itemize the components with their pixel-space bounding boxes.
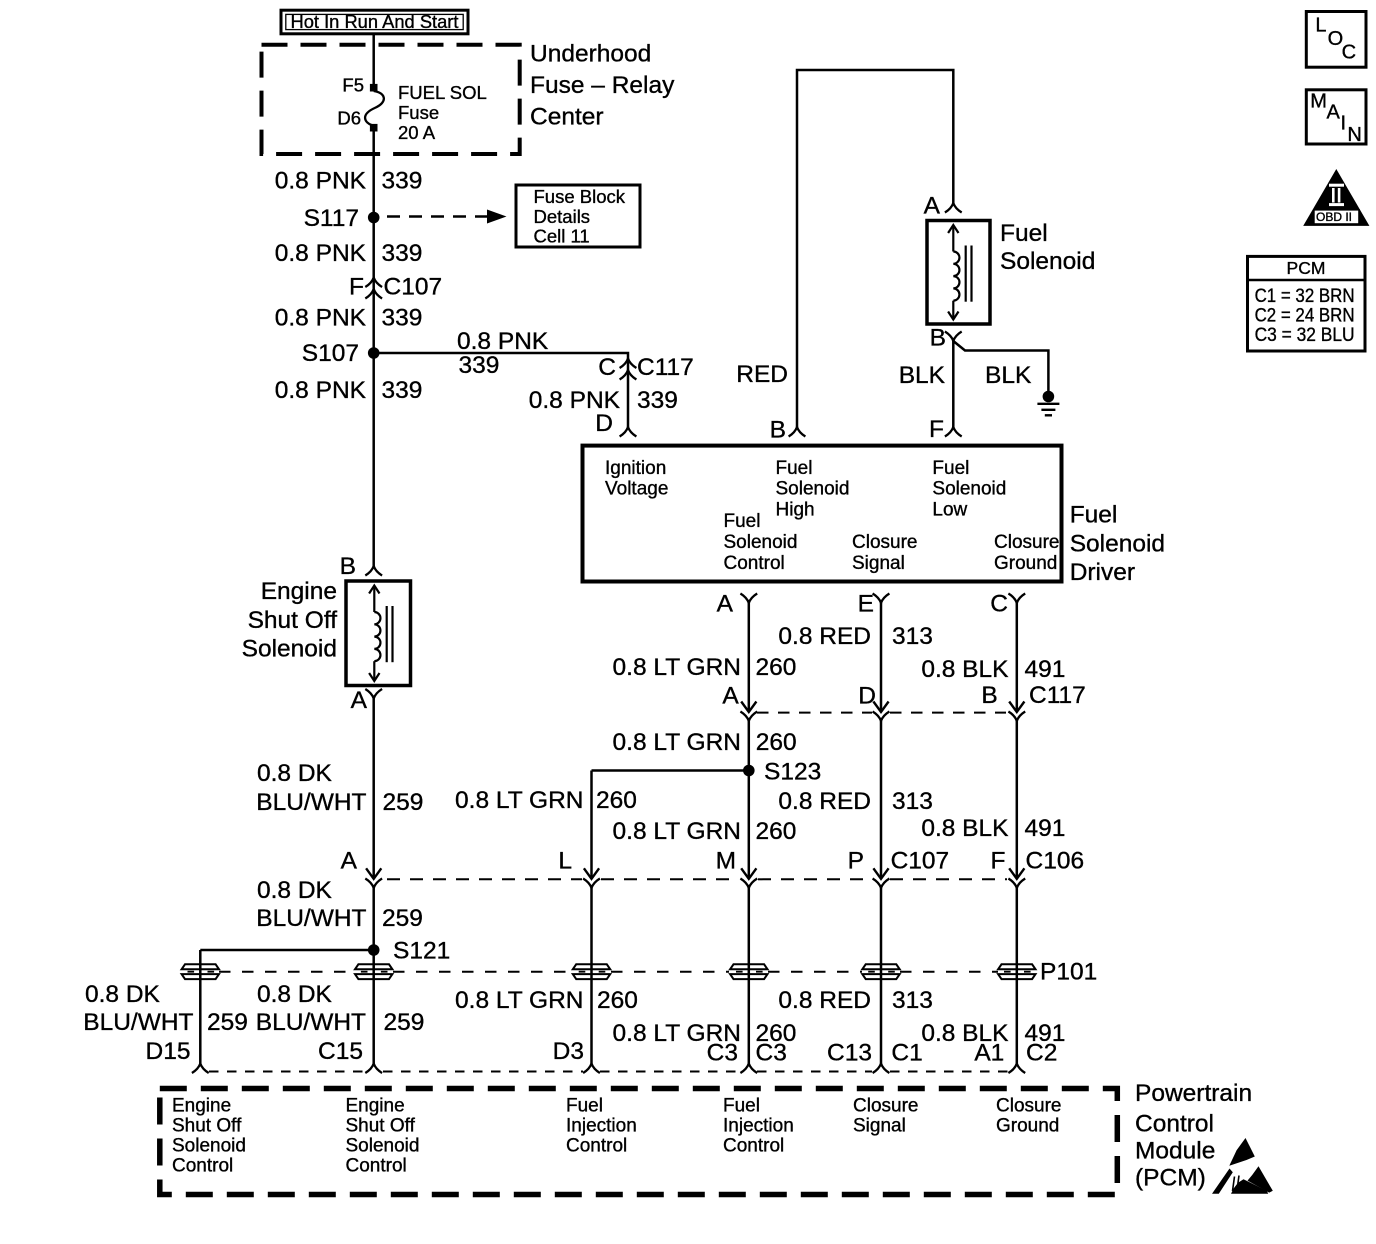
dashed arrow S117 to fuse block details [387,215,487,217]
svg-text:0.8 DK: 0.8 DK [257,760,333,787]
svg-text:Low: Low [932,500,967,521]
svg-text:High: High [776,500,815,521]
svg-text:Fuel: Fuel [723,1096,760,1117]
svg-text:Hot In Run And Start: Hot In Run And Start [291,12,459,32]
svg-text:0.8 RED: 0.8 RED [778,987,871,1014]
svg-text:Injection: Injection [566,1116,637,1137]
svg-text:Fuel: Fuel [724,511,761,532]
svg-text:0.8 PNK: 0.8 PNK [275,304,367,331]
svg-text:B: B [930,324,946,351]
box PCM connector legend [1248,256,1366,351]
PCM pin forks [192,1064,209,1074]
svg-text:Cell 11: Cell 11 [534,226,590,247]
svg-text:Voltage: Voltage [605,479,668,500]
splice S107 [368,347,380,359]
wire - fuse D6 to S117 to S107 to engine shut off solenoid B (0.8 PNK 339 / DK BLU) [372,131,375,566]
svg-text:Closure: Closure [852,532,917,553]
svg-text:D: D [595,410,613,437]
svg-text:A: A [341,847,358,874]
svg-text:259: 259 [207,1009,248,1036]
svg-text:0.8 PNK: 0.8 PNK [275,167,367,194]
svg-text:Engine: Engine [346,1096,405,1117]
svg-text:Closure: Closure [853,1096,918,1117]
svg-text:0.8 LT GRN: 0.8 LT GRN [455,787,583,814]
svg-text:339: 339 [382,304,423,331]
svg-text:Fuel: Fuel [1000,220,1048,247]
svg-text:C107: C107 [384,273,443,300]
svg-text:Injection: Injection [723,1116,794,1137]
svg-text:Control: Control [723,1136,784,1157]
svg-text:Engine: Engine [261,578,337,605]
wire - C107 pin M to PCM pin C3 (0.8 LT GRN 260) [748,888,751,1064]
wire - S121 branch to PCM pin D15 [200,949,373,952]
svg-text:0.8 LT GRN: 0.8 LT GRN [613,818,741,845]
engine solenoid pin B fork [365,566,382,576]
svg-text:OBD II: OBD II [1316,212,1352,224]
connector C117 inline symbol [620,359,637,369]
svg-text:259: 259 [382,905,423,932]
svg-text:P101: P101 [1040,958,1097,985]
dashed box Underhood Fuse-Relay Center [262,45,520,154]
svg-text:A: A [717,590,734,617]
svg-text:0.8 BLK: 0.8 BLK [921,656,1009,683]
svg-text:D3: D3 [553,1038,584,1065]
svg-text:Shut Off: Shut Off [346,1116,416,1137]
fuel solenoid pin A fork [945,203,962,213]
wire - C117 pin D to C107 pin P (0.8 RED 313) [880,721,883,879]
svg-text:S121: S121 [393,937,450,964]
svg-text:BLU/WHT: BLU/WHT [83,1009,193,1036]
svg-text:N: N [1347,124,1361,146]
C107/C106 row arrowheads and forks [366,868,381,879]
svg-text:Fuse – Relay: Fuse – Relay [530,72,675,99]
box Hot In Run And Start [281,10,468,34]
fuel solenoid component box with coil [927,221,990,325]
svg-text:Solenoid: Solenoid [1000,248,1095,275]
svg-text:Control: Control [724,553,785,574]
svg-text:Module: Module [1135,1138,1215,1165]
svg-text:Engine: Engine [172,1096,231,1117]
svg-text:E: E [858,590,874,617]
svg-text:Underhood: Underhood [530,40,651,67]
svg-text:D15: D15 [146,1038,191,1065]
box LOC [1306,12,1366,68]
svg-text:Solenoid: Solenoid [724,532,798,553]
svg-text:C: C [1342,41,1356,63]
svg-text:A: A [722,682,739,709]
wire - S123 branch to C107 pin L (0.8 LT GRN 260) [592,769,749,772]
svg-text:BLK: BLK [899,362,946,389]
svg-text:491: 491 [1025,815,1066,842]
svg-text:A1: A1 [974,1039,1004,1066]
P101 grommet pass-through (left) [182,964,219,969]
svg-text:I: I [1341,113,1347,135]
svg-text:PCM: PCM [1287,258,1326,278]
svg-text:C117: C117 [637,354,694,381]
svg-text:Driver: Driver [1070,559,1135,586]
driver pin F fork [945,427,962,437]
svg-text:0.8 LT GRN: 0.8 LT GRN [613,654,741,681]
svg-text:C2 = 24 BRN: C2 = 24 BRN [1255,305,1355,326]
svg-text:C13: C13 [827,1039,872,1066]
svg-text:L: L [558,847,572,874]
svg-text:Shut Off: Shut Off [248,607,338,634]
svg-text:260: 260 [756,654,797,681]
svg-text:C107: C107 [891,847,950,874]
svg-text:Solenoid: Solenoid [932,479,1006,500]
ESD symbol small [1229,1138,1255,1166]
svg-text:Control: Control [566,1136,627,1157]
svg-text:Fuel: Fuel [1070,501,1118,528]
dashed box Powertrain Control Module [160,1089,1118,1195]
engine shut off solenoid component box with coil [346,581,411,686]
svg-text:F: F [991,847,1006,874]
wire - driver pin B RED to fuel solenoid pin A [797,70,953,427]
box MAIN [1306,90,1366,144]
svg-text:C3: C3 [756,1039,787,1066]
svg-text:BLU/WHT: BLU/WHT [256,905,366,932]
engine solenoid pin A fork [365,689,382,699]
svg-text:339: 339 [637,387,678,414]
fuel solenoid pin B fork [945,332,962,342]
OBD II triangle symbol [1303,169,1369,226]
svg-text:Control: Control [1135,1110,1214,1137]
svg-text:Closure: Closure [994,532,1059,553]
wire - driver pin C to C117 pin B (0.8 BLK 491) [1016,603,1019,712]
svg-text:260: 260 [756,729,797,756]
svg-text:M: M [1310,90,1327,112]
P101 grommet pass-through (C3 wire) [730,964,767,969]
fuse FUEL SOL 20A [370,84,378,92]
wire - driver pin A to C117 row (0.8 LT GRN 260) [748,603,751,712]
svg-text:P: P [848,847,864,874]
svg-text:C3: C3 [707,1039,738,1066]
driver pin A fork [740,594,757,604]
svg-text:B: B [340,553,356,580]
wire - C106 pin F to PCM pin A1 (0.8 BLK 491) [1016,888,1019,1064]
wire - C107 to S121 to PCM pin C15 [372,888,375,1064]
svg-text:0.8 LT GRN: 0.8 LT GRN [455,987,583,1014]
svg-text:260: 260 [756,818,797,845]
wire - C107 pin P to PCM pin C13 (0.8 RED 313) [880,888,883,1064]
P101 grommet pass-through (C15 wire) [355,964,392,969]
svg-text:339: 339 [382,167,423,194]
svg-text:Shut Off: Shut Off [172,1116,242,1137]
svg-text:C1 = 32 BRN: C1 = 32 BRN [1255,286,1355,307]
svg-text:313: 313 [892,623,933,650]
svg-text:260: 260 [597,987,638,1014]
svg-text:0.8 LT GRN: 0.8 LT GRN [613,729,741,756]
fuel solenoid driver box [583,446,1062,582]
svg-text:D6: D6 [337,108,361,129]
svg-text:M: M [716,847,736,874]
svg-text:313: 313 [892,987,933,1014]
svg-text:C117: C117 [1029,682,1086,709]
svg-text:C: C [990,590,1008,617]
svg-text:FUEL SOL: FUEL SOL [398,82,487,103]
connector C107 inline symbol [365,278,382,288]
svg-text:Solenoid: Solenoid [172,1136,246,1157]
svg-text:259: 259 [383,789,424,816]
svg-text:Details: Details [534,206,591,227]
svg-text:Ground: Ground [994,553,1057,574]
svg-text:BLU/WHT: BLU/WHT [256,789,366,816]
svg-text:Control: Control [346,1156,407,1177]
driver pin E fork [873,594,890,604]
driver pin C fork [1008,594,1025,604]
driver pin D fork [620,427,637,437]
svg-text:B: B [981,682,997,709]
wire - fuel solenoid pin B BLK to ground [953,341,1048,391]
svg-text:(PCM): (PCM) [1135,1165,1206,1192]
svg-text:0.8 DK: 0.8 DK [85,981,161,1008]
svg-text:F5: F5 [342,75,364,96]
P101 grommet pass-through (C2 wire) [998,964,1035,969]
svg-text:RED: RED [736,361,788,388]
svg-text:Signal: Signal [853,1116,906,1137]
svg-text:Ignition: Ignition [605,458,666,479]
svg-text:Fuse Block: Fuse Block [534,186,626,207]
svg-text:A: A [1327,101,1341,123]
wire - S107 branch to C117 / driver pin D (0.8 PNK 339) [374,353,628,427]
svg-text:Signal: Signal [852,553,905,574]
splice S117 [368,212,380,224]
grommet P101 dashed line [219,971,355,973]
svg-text:313: 313 [892,788,933,815]
P101 grommet pass-through (D3 wire) [573,964,610,969]
ESD symbol large [1212,1169,1233,1194]
svg-text:C2: C2 [1026,1039,1057,1066]
svg-text:S123: S123 [764,758,821,785]
svg-text:339: 339 [382,377,423,404]
svg-text:B: B [770,416,786,443]
svg-text:Powertrain: Powertrain [1135,1080,1252,1107]
wire - C117 pin A to S123 to C107 pin M (0.8 LT GRN 260) [748,721,751,879]
svg-text:C: C [598,354,616,381]
svg-text:C3 = 32 BLU: C3 = 32 BLU [1255,325,1355,346]
svg-text:Ground: Ground [996,1116,1059,1137]
C117 row arrowheads and forks [741,702,756,713]
svg-text:Fuel: Fuel [932,458,969,479]
ground G103 symbol [1043,391,1055,403]
svg-text:F: F [349,273,364,300]
P101 grommet pass-through (C1 wire) [862,964,899,969]
connector C107/C106 dashed line [387,878,582,880]
svg-text:BLU/WHT: BLU/WHT [256,1009,366,1036]
box Fuse Block Details Cell 11 [516,185,640,247]
splice S123 [743,765,755,777]
svg-text:Solenoid: Solenoid [346,1136,420,1157]
svg-text:S107: S107 [302,340,359,367]
svg-text:Fuel: Fuel [566,1096,603,1117]
svg-text:Solenoid: Solenoid [242,636,337,663]
svg-text:C15: C15 [318,1038,363,1065]
wire - fuel solenoid pin B BLK to driver pin F [952,341,955,427]
svg-text:F: F [929,416,944,443]
svg-text:491: 491 [1025,656,1066,683]
wire - engine shut off solenoid A down to C107 row (0.8 DK BLU/WHT 259) [372,699,375,879]
wire - battery feed into fuse F5 [372,35,375,84]
svg-text:D: D [858,682,876,709]
svg-text:0.8 RED: 0.8 RED [778,788,871,815]
svg-text:Center: Center [530,103,604,130]
svg-text:Solenoid: Solenoid [776,479,850,500]
svg-text:339: 339 [382,240,423,267]
svg-text:0.8 BLK: 0.8 BLK [921,815,1009,842]
svg-text:Solenoid: Solenoid [1070,530,1165,557]
svg-text:BLK: BLK [985,362,1032,389]
svg-text:Fuse: Fuse [398,102,439,123]
svg-text:0.8 DK: 0.8 DK [257,877,333,904]
svg-text:0.8 RED: 0.8 RED [778,623,871,650]
svg-text:0.8 PNK: 0.8 PNK [275,240,367,267]
wire - C117 pin B to C106 pin F (0.8 BLK 491) [1016,721,1019,879]
svg-text:Control: Control [172,1156,233,1177]
svg-text:0.8 DK: 0.8 DK [257,981,333,1008]
svg-text:Closure: Closure [996,1096,1061,1117]
svg-text:339: 339 [459,352,500,379]
svg-text:Fuel: Fuel [776,458,813,479]
svg-text:260: 260 [596,787,637,814]
svg-text:L: L [1315,14,1326,36]
svg-text:A: A [924,192,941,219]
svg-text:C106: C106 [1026,847,1085,874]
svg-text:20 A: 20 A [398,122,436,143]
connector C117 dashed line (row 2) [757,712,872,714]
wire - driver pin E to C117 pin D (0.8 RED 313) [880,603,883,712]
wire - C107 pin L to PCM pin D3 [590,888,593,1064]
svg-text:A: A [351,687,368,714]
splice S121 [368,944,380,956]
svg-text:S117: S117 [304,205,359,232]
svg-text:0.8 PNK: 0.8 PNK [457,328,549,355]
PCM connector dashed line [209,1071,365,1073]
svg-text:259: 259 [384,1009,425,1036]
svg-text:C1: C1 [891,1039,922,1066]
driver pin B fork [789,427,806,437]
svg-text:0.8 PNK: 0.8 PNK [275,377,367,404]
